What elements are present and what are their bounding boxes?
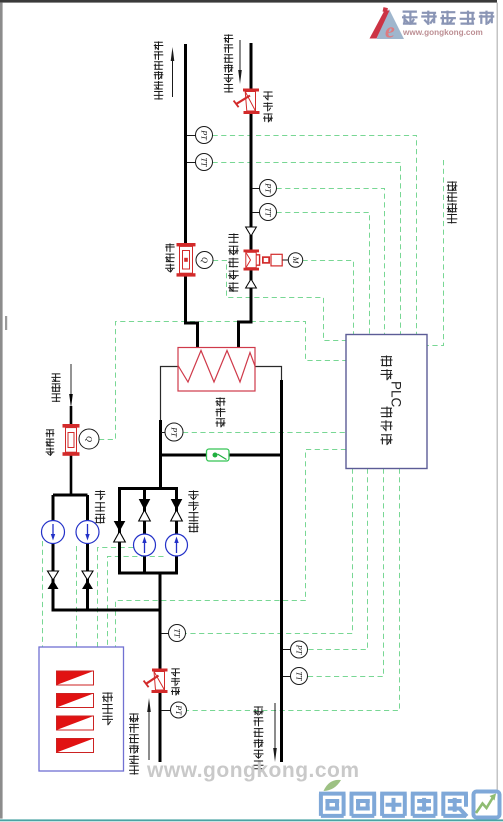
instrument PT4 secondary return pressure [171, 702, 187, 718]
pipe circulating pump inlet manifold [120, 487, 177, 490]
wire Q2 makeup flow meter to PLC left [99, 322, 346, 440]
arrow secondary supply flow (down) [274, 703, 276, 748]
label 除污器 (bottom strainer) [171, 668, 180, 676]
instrument PT3 secondary supply pressure [165, 423, 183, 441]
pipe primary network supply (down to heat exchanger) [239, 43, 252, 348]
stub to TT4 [161, 633, 169, 635]
wire PT3 secondary pressure to PLC left [183, 432, 346, 434]
wire makeup pump1 to VFD [42, 541, 44, 647]
label 变频柜 [102, 692, 113, 702]
label 换热器 [216, 397, 226, 406]
arrow secondary return flow (up) [148, 712, 150, 760]
stub to TT1 [187, 162, 196, 164]
watermark 中国工控网 [402, 11, 418, 25]
svg-text:PT: PT [295, 644, 304, 656]
wire TT2 primary-supply temperature to PLC top [277, 213, 370, 335]
flow arrow (hollow, up) below control valve [246, 279, 257, 288]
wire PLC left to VFD cabinet bus [116, 450, 347, 648]
pipe softened water to flow meter [70, 406, 73, 425]
pipe primary network return (down to heat exchanger) [186, 44, 198, 348]
wire PLC bottom to TT5 supply temperature [308, 469, 384, 677]
pipe secondary network supply (down to bottom) [280, 380, 283, 762]
label 二级管网供水 [254, 706, 264, 715]
wire M motor-valve to PLC top [303, 261, 354, 335]
pipe flow meter to makeup manifold [70, 455, 73, 497]
svg-text:TT: TT [264, 207, 273, 218]
wire PLC bottom to TT4 return temperature [186, 469, 353, 634]
label 一级管网供水 [224, 34, 234, 43]
svg-text:PT: PT [174, 704, 183, 716]
instrument M motor of control valve [288, 253, 302, 267]
pipe circulating pump branch middle [143, 487, 146, 575]
watermark 废品回收商网 blue logo [319, 794, 346, 816]
pipe makeup pump inlet manifold [53, 494, 88, 497]
wire remote communication to PLC right [428, 160, 444, 346]
svg-text:PT: PT [264, 182, 273, 194]
frame left tick [5, 316, 7, 330]
instrument PT5 secondary supply pressure [291, 641, 308, 658]
svg-text:Q: Q [85, 436, 94, 442]
svg-text:PT: PT [200, 129, 209, 141]
temperature sensor (green) on secondary supply header [207, 449, 230, 461]
stub to PT5 [283, 649, 291, 651]
label 一级管网回水 [154, 41, 164, 50]
wire PLC bottom to PT5 supply pressure [308, 469, 368, 650]
PLC controller box 现场PLC控制器 [346, 335, 427, 469]
frame bottom teal line [0, 819, 503, 821]
wire TT1 primary-return temperature to PLC top [213, 163, 401, 335]
svg-text:TT: TT [295, 671, 304, 682]
heat exchanger 换热器 [178, 348, 255, 392]
pipe secondary network return (to bottom) [159, 573, 162, 762]
stub to PT4 [161, 710, 171, 712]
svg-text:www.gongkong.com: www.gongkong.com [402, 28, 483, 37]
svg-text:Q: Q [200, 257, 209, 263]
label 补水泵 [95, 490, 106, 500]
pipe circulating pump branch left [118, 487, 121, 575]
instrument TT1 primary return temperature [196, 154, 213, 171]
valve on circulating branch right [171, 499, 183, 510]
heat meter 热量计 (on primary return) [177, 243, 196, 277]
svg-text:PLC: PLC [389, 381, 404, 408]
check valve makeup pump 1 [48, 571, 59, 580]
instrument TT2 primary supply temperature [260, 204, 277, 221]
pipe secondary down to circulating pump manifold [159, 420, 162, 489]
link valve actuator to motor [283, 259, 289, 261]
frame top bar [0, 0, 497, 3]
leaf on 废 [324, 780, 342, 791]
stub to TT5 [283, 676, 291, 678]
VFD module 1 [57, 671, 94, 685]
arrow softened water flow [69, 394, 73, 408]
instrument TT5 secondary supply temperature [291, 668, 308, 685]
instrument Q1 heat meter readout [196, 252, 213, 269]
pipe circulating pump outlet manifold [120, 572, 177, 575]
stub to PT2 [252, 188, 260, 190]
label 除污器 (top strainer) [263, 91, 273, 100]
wire PLC bottom to PT4 return pressure [187, 469, 400, 711]
wire makeup pump2 to VFD [76, 546, 78, 647]
circulating pump 1 (循环水泵) [134, 534, 156, 556]
makeup pump 2 (补水泵) [76, 521, 99, 544]
wire circulating pump1 to VFD [98, 548, 134, 648]
makeup pump 1 (补水泵) [42, 521, 65, 544]
flow meter 流量计 (softened water) [63, 424, 80, 456]
electric control valve 电动调节阀 [244, 250, 283, 271]
stub to PT3 [161, 432, 166, 434]
pipe circulating pump branch right [175, 487, 178, 575]
stub to PT1 [187, 135, 196, 137]
label 远传通讯 [447, 181, 458, 191]
svg-text:www.gongkong.com: www.gongkong.com [146, 759, 360, 782]
label 流量计 [46, 429, 55, 437]
arrow primary supply flow (down) [239, 40, 241, 72]
svg-text:M: M [291, 256, 300, 265]
flow arrow (hollow, down) above control valve [246, 227, 257, 236]
svg-text:TT: TT [200, 157, 209, 168]
label 软化水 [51, 373, 60, 382]
valve on circulating branch left [114, 521, 126, 532]
wire circulating pump2 to VFD [108, 557, 164, 648]
arrow primary return flow (up) [172, 60, 174, 97]
pipe makeup pump branch 2 [86, 495, 89, 612]
strainer (primary supply, top) [234, 89, 260, 115]
wire PT2 primary-supply pressure to PLC top [277, 189, 385, 335]
pipe makeup pump branch 1 [52, 495, 55, 612]
frame right line [497, 3, 498, 791]
VFD module 4 [57, 739, 94, 753]
label 热量计 [165, 243, 175, 252]
pipe secondary from HX right (thin) [255, 367, 282, 382]
label 电动调节阀 [228, 233, 239, 243]
instrument TT4 secondary return temperature [169, 625, 186, 642]
wire PT1 primary-return pressure to PLC top [213, 136, 417, 335]
pipe softened water inlet (thin) [70, 364, 72, 396]
svg-text:e: e [385, 18, 395, 43]
circulating pump 2 (循环水泵) [166, 534, 188, 556]
check valve makeup pump 2 [82, 571, 93, 580]
stub to TT2 [252, 212, 260, 214]
frame left bar [0, 3, 3, 819]
VFD module 2 [57, 694, 94, 708]
label 循环水泵 [188, 490, 199, 500]
pipe makeup pump outlet manifold [53, 609, 160, 612]
pipe secondary supply from HX left (thin) [161, 367, 179, 422]
pipe secondary supply cross header [160, 454, 282, 457]
instrument Q2 makeup flow readout [79, 429, 99, 449]
VFD cabinet box 变频柜 [39, 647, 124, 771]
strainer (secondary return, bottom) [144, 669, 168, 694]
label 二级管网回水 [129, 713, 139, 722]
svg-text:TT: TT [173, 628, 182, 639]
svg-text:PT: PT [170, 426, 179, 438]
VFD module 3 [57, 716, 94, 730]
instrument PT1 primary return pressure [196, 127, 213, 144]
wire Q1 heat meter to PLC left [213, 261, 346, 341]
valve on circulating branch middle [139, 499, 151, 510]
instrument PT2 primary supply pressure [260, 180, 277, 197]
watermark gongkong logo mark [377, 9, 405, 39]
